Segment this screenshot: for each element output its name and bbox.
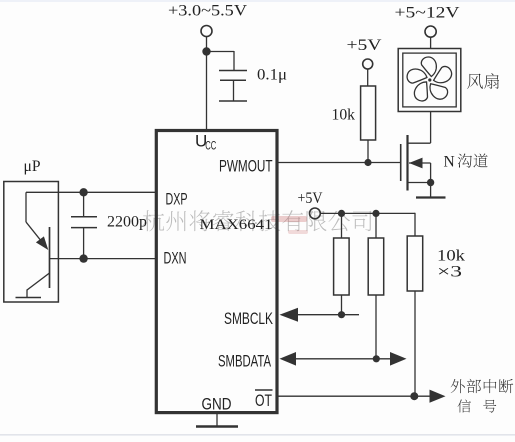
transistor Q1 channel (406, 135, 408, 191)
node OT R4 (410, 392, 418, 400)
svg-text:μP: μP (24, 158, 41, 175)
svg-text:+5V: +5V (347, 37, 383, 54)
wire C2 bottom lead (83, 228, 85, 259)
svg-text:10k: 10k (437, 248, 465, 265)
svg-text:DXN: DXN (164, 250, 187, 268)
svg-text:SMBDATA: SMBDATA (218, 353, 271, 371)
wire source lead (408, 182, 431, 184)
wire PWMOUT to gate (278, 162, 401, 164)
node junction VCC (202, 47, 210, 55)
C1 bottom bar (219, 100, 247, 102)
ground GND bar (196, 425, 238, 428)
transistor Q2 collector drop (26, 290, 28, 298)
svg-text:N: N (444, 154, 455, 171)
node SMBCLK R2 (338, 311, 345, 318)
svg-text:0.1μ: 0.1μ (257, 67, 287, 84)
transistor Q1 body arrow (409, 158, 423, 169)
ground Q2 bar (16, 297, 42, 299)
label interrupt line2 (458, 399, 471, 412)
resistor R2 body (334, 238, 350, 295)
wire SMBDATA (293, 358, 392, 360)
wire DXN (50, 258, 157, 260)
terminal fan circle (425, 26, 436, 37)
node DXN junction (79, 254, 87, 262)
node PWMOUT junction (364, 159, 371, 166)
svg-text:MAX6641: MAX6641 (200, 217, 273, 233)
arrow SMBDATA right (390, 352, 407, 366)
wire R1 top lead (367, 69, 369, 86)
svg-text:DXP: DXP (166, 191, 188, 209)
wire fan top lead (430, 37, 432, 48)
svg-text:UCC: UCC (195, 132, 216, 153)
wire R2 top lead (341, 213, 343, 238)
capacitor C2 (71, 216, 97, 218)
terminal rail circle (310, 208, 321, 219)
wire GND stub (216, 413, 218, 426)
wire source to ground (430, 163, 432, 197)
fan M1 symbol (398, 49, 461, 112)
resistor R3 body (368, 238, 384, 295)
resistor R4 body (407, 236, 423, 291)
svg-text:PWMOUT: PWMOUT (219, 158, 273, 176)
transistor Q2 collector diag (27, 273, 50, 290)
svg-text:SMBCLK: SMBCLK (224, 310, 273, 328)
svg-text:OT: OT (255, 392, 272, 410)
wire C2 top lead (83, 192, 85, 216)
capacitor C1 (219, 70, 247, 72)
wire drain lead (407, 142, 431, 144)
wire SMBCLK (294, 314, 359, 316)
arrow SMBDATA left (280, 352, 297, 366)
wire T1 to node (206, 37, 208, 52)
transistor Q1 gate bar (400, 144, 402, 181)
terminal R1 circle (363, 59, 373, 69)
arrow SMBCLK (280, 308, 299, 322)
node source junction (427, 179, 434, 186)
transistor Q2 emitter diag (26, 222, 44, 245)
svg-text:+3.0~5.5V: +3.0~5.5V (168, 3, 248, 20)
block uP box (4, 182, 59, 303)
wire R1 bottom lead (367, 140, 369, 163)
wire OT (278, 395, 433, 397)
svg-text:GND: GND (202, 396, 232, 414)
node DXP junction (79, 188, 87, 196)
op-amp U1 MAX6641 box (156, 131, 277, 413)
svg-text:10k: 10k (332, 107, 356, 124)
resistor R1 body (361, 86, 376, 140)
transistor Q2 base bar (49, 227, 51, 288)
svg-text:×3: ×3 (437, 264, 462, 281)
watermark text (143, 210, 372, 231)
label interrupt line1 (451, 379, 514, 393)
node rail R3 (372, 210, 379, 217)
wire R3 top lead (375, 213, 377, 238)
terminal T1 circle (201, 26, 212, 37)
scan edge artifacts (0, 434, 515, 436)
ground Q1 bar (416, 196, 446, 198)
wire fan to drain (430, 112, 432, 144)
svg-text:2200p: 2200p (107, 214, 147, 231)
svg-text:+5V: +5V (298, 190, 323, 207)
node SMBDATA R3 (373, 355, 380, 362)
transistor Q2 collector lead (25, 192, 27, 222)
node rail R2 (338, 210, 345, 217)
wire C1 lower lead (233, 80, 235, 101)
svg-text:+5~12V: +5~12V (395, 5, 461, 22)
label fan CJK (467, 73, 499, 89)
wire rail horizontal (320, 212, 415, 214)
watermark red mark (271, 216, 308, 234)
transistor Q2 emitter arrow (36, 236, 48, 250)
wire VCC to UCC pin (206, 52, 208, 131)
wire DXP (26, 191, 156, 193)
wire VCC to C1 (207, 51, 235, 53)
wire R3 bottom lead (375, 295, 377, 359)
wire rail to R4 (414, 213, 416, 236)
wire R2 bottom lead (341, 295, 343, 315)
arrow OT (430, 390, 446, 403)
wire R4 bottom lead (414, 291, 416, 396)
